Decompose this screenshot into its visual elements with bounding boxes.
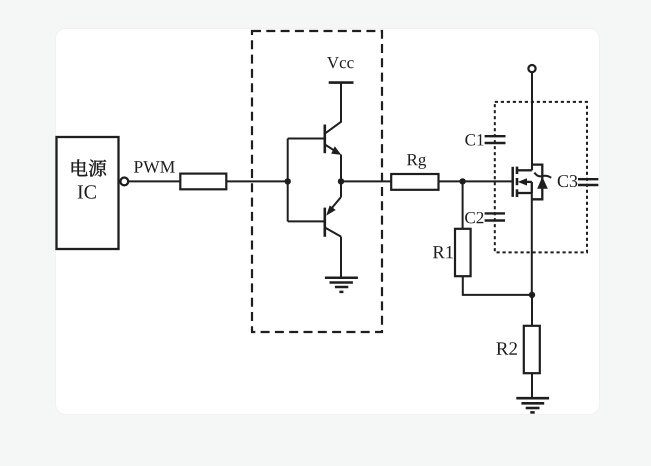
capacitor C1 [485, 136, 506, 143]
wire: Q1 emitter to output node [340, 155, 342, 182]
transistor Q1 (NPN) [325, 122, 342, 155]
label PWM [134, 161, 175, 173]
wire: output node to Q2 emitter [340, 181, 342, 197]
label Rg [407, 154, 426, 169]
label C3 [558, 175, 578, 187]
wire: R1 bottom to source junction [463, 276, 532, 295]
label C1 [465, 134, 483, 145]
resistor R1 [455, 229, 471, 276]
wire: Vcc to Q1 collector [340, 83, 342, 123]
wire: Q2 base [288, 220, 325, 222]
power IC box U1 [57, 137, 119, 249]
label R2 [496, 342, 517, 355]
PWM output terminal (open circle) [120, 178, 128, 186]
label 电源 (power) [72, 159, 107, 176]
node: driver output junction [338, 178, 344, 184]
label Vcc [327, 57, 354, 68]
label IC [78, 185, 96, 198]
label R1 [433, 246, 453, 258]
wire: driver output to Rg [341, 180, 391, 182]
capacitor C3 [578, 179, 598, 185]
resistor Rg [391, 174, 438, 190]
wire: Q2 collector to ground [340, 237, 342, 278]
wire: source junction to R2 [531, 295, 533, 326]
ground (source return) [516, 398, 549, 412]
wire: Rg to MOSFET gate [439, 180, 513, 182]
wire: junction down to R1 [462, 181, 464, 228]
Vcc rail bar [329, 81, 354, 84]
resistor (PWM series) [180, 174, 226, 190]
resistor R2 [524, 326, 540, 373]
wire: MOSFET source down [531, 193, 533, 295]
driver stage dashed box [252, 31, 382, 332]
wire: base bus vertical [287, 139, 289, 222]
wire: R2 to ground [531, 373, 533, 398]
capacitor C2 [485, 213, 505, 220]
ground (driver stage) [325, 278, 358, 292]
transistor Q2 (PNP) [325, 197, 341, 237]
MOSFET package dotted box [495, 102, 587, 253]
drain terminal (open circle) [528, 65, 535, 72]
wire: terminal to series resistor [128, 180, 180, 182]
wire: drain terminal down to MOSFET [531, 73, 533, 170]
wire: resistor to driver input [226, 180, 287, 182]
node: gate drive junction [459, 178, 465, 184]
body diode D1 branch [532, 165, 551, 200]
node: source junction [529, 292, 535, 298]
MOSFET Q3 [513, 167, 532, 197]
wire: Q1 base [288, 138, 325, 140]
node: driver input junction [285, 178, 291, 184]
label C2 [465, 212, 483, 223]
